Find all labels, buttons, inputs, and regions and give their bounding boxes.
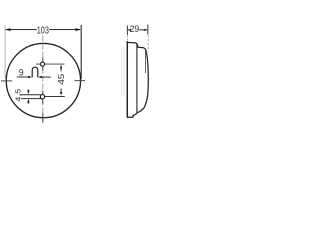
front view: horizontal centerline left segment xyxy=(1,80,12,82)
dimension 103: left extension line xyxy=(4,25,6,78)
dimension 29: left arrowhead (pointing left) xyxy=(128,29,131,31)
lower mounting hole: extension line to dimension 45 xyxy=(45,96,65,98)
dimension 103: right arrowhead xyxy=(75,28,81,31)
dimension 103: left arrowhead xyxy=(5,28,11,31)
dimension 103: right extension line xyxy=(80,25,82,79)
side view: body outline xyxy=(127,42,148,117)
lower mounting hole xyxy=(40,95,44,99)
side view: lens rim line xyxy=(144,51,146,74)
dimension 29: dimension line dashes xyxy=(128,29,147,31)
dimension 29: right extension bar xyxy=(147,25,149,35)
svg-text:103: 103 xyxy=(37,25,49,37)
cable entry slot (inverted U) xyxy=(32,67,38,77)
front view: vertical centerline dark segments at holes and bottom xyxy=(42,58,44,123)
side view: gasket faint lines xyxy=(122,47,124,97)
dimension 103: dimension line xyxy=(6,29,80,31)
upper mounting hole: extension line through hole to dimension 45 xyxy=(36,63,64,65)
svg-text:45: 45 xyxy=(56,73,66,84)
dimension 9: left segment with right arrowhead xyxy=(17,76,29,78)
front view: lamp outer circle xyxy=(6,43,80,117)
dimension 29: right extension line down along lens (dashed) xyxy=(147,35,149,52)
front view: vertical centerline xyxy=(42,36,44,124)
side view: rear edge line xyxy=(126,41,128,117)
dimension 9: right segment with left arrowhead xyxy=(41,76,50,78)
dimension 29: left extension bar xyxy=(126,26,128,36)
side view: housing/lens seam line xyxy=(136,44,138,113)
dimension 45: up arrowhead xyxy=(60,65,62,69)
lower hole slot: top and bottom edges xyxy=(20,95,42,99)
front view: horizontal centerline right segment xyxy=(75,80,86,82)
upper mounting hole xyxy=(40,62,44,66)
dimension 29: left extension line down to body (dotted) xyxy=(126,36,128,41)
svg-text:4,5: 4,5 xyxy=(14,89,23,102)
dimension 4,5: upper leader with down arrowhead xyxy=(27,90,29,92)
dimension 45: down arrowhead xyxy=(60,92,62,96)
dimension 4,5: lower leader with up arrowhead xyxy=(27,101,29,103)
svg-text:9: 9 xyxy=(19,67,24,77)
dimension 45: dimension line segments xyxy=(60,68,62,93)
dimension 29: right arrowhead (pointing right) xyxy=(144,29,147,31)
svg-text:29: 29 xyxy=(130,24,140,34)
